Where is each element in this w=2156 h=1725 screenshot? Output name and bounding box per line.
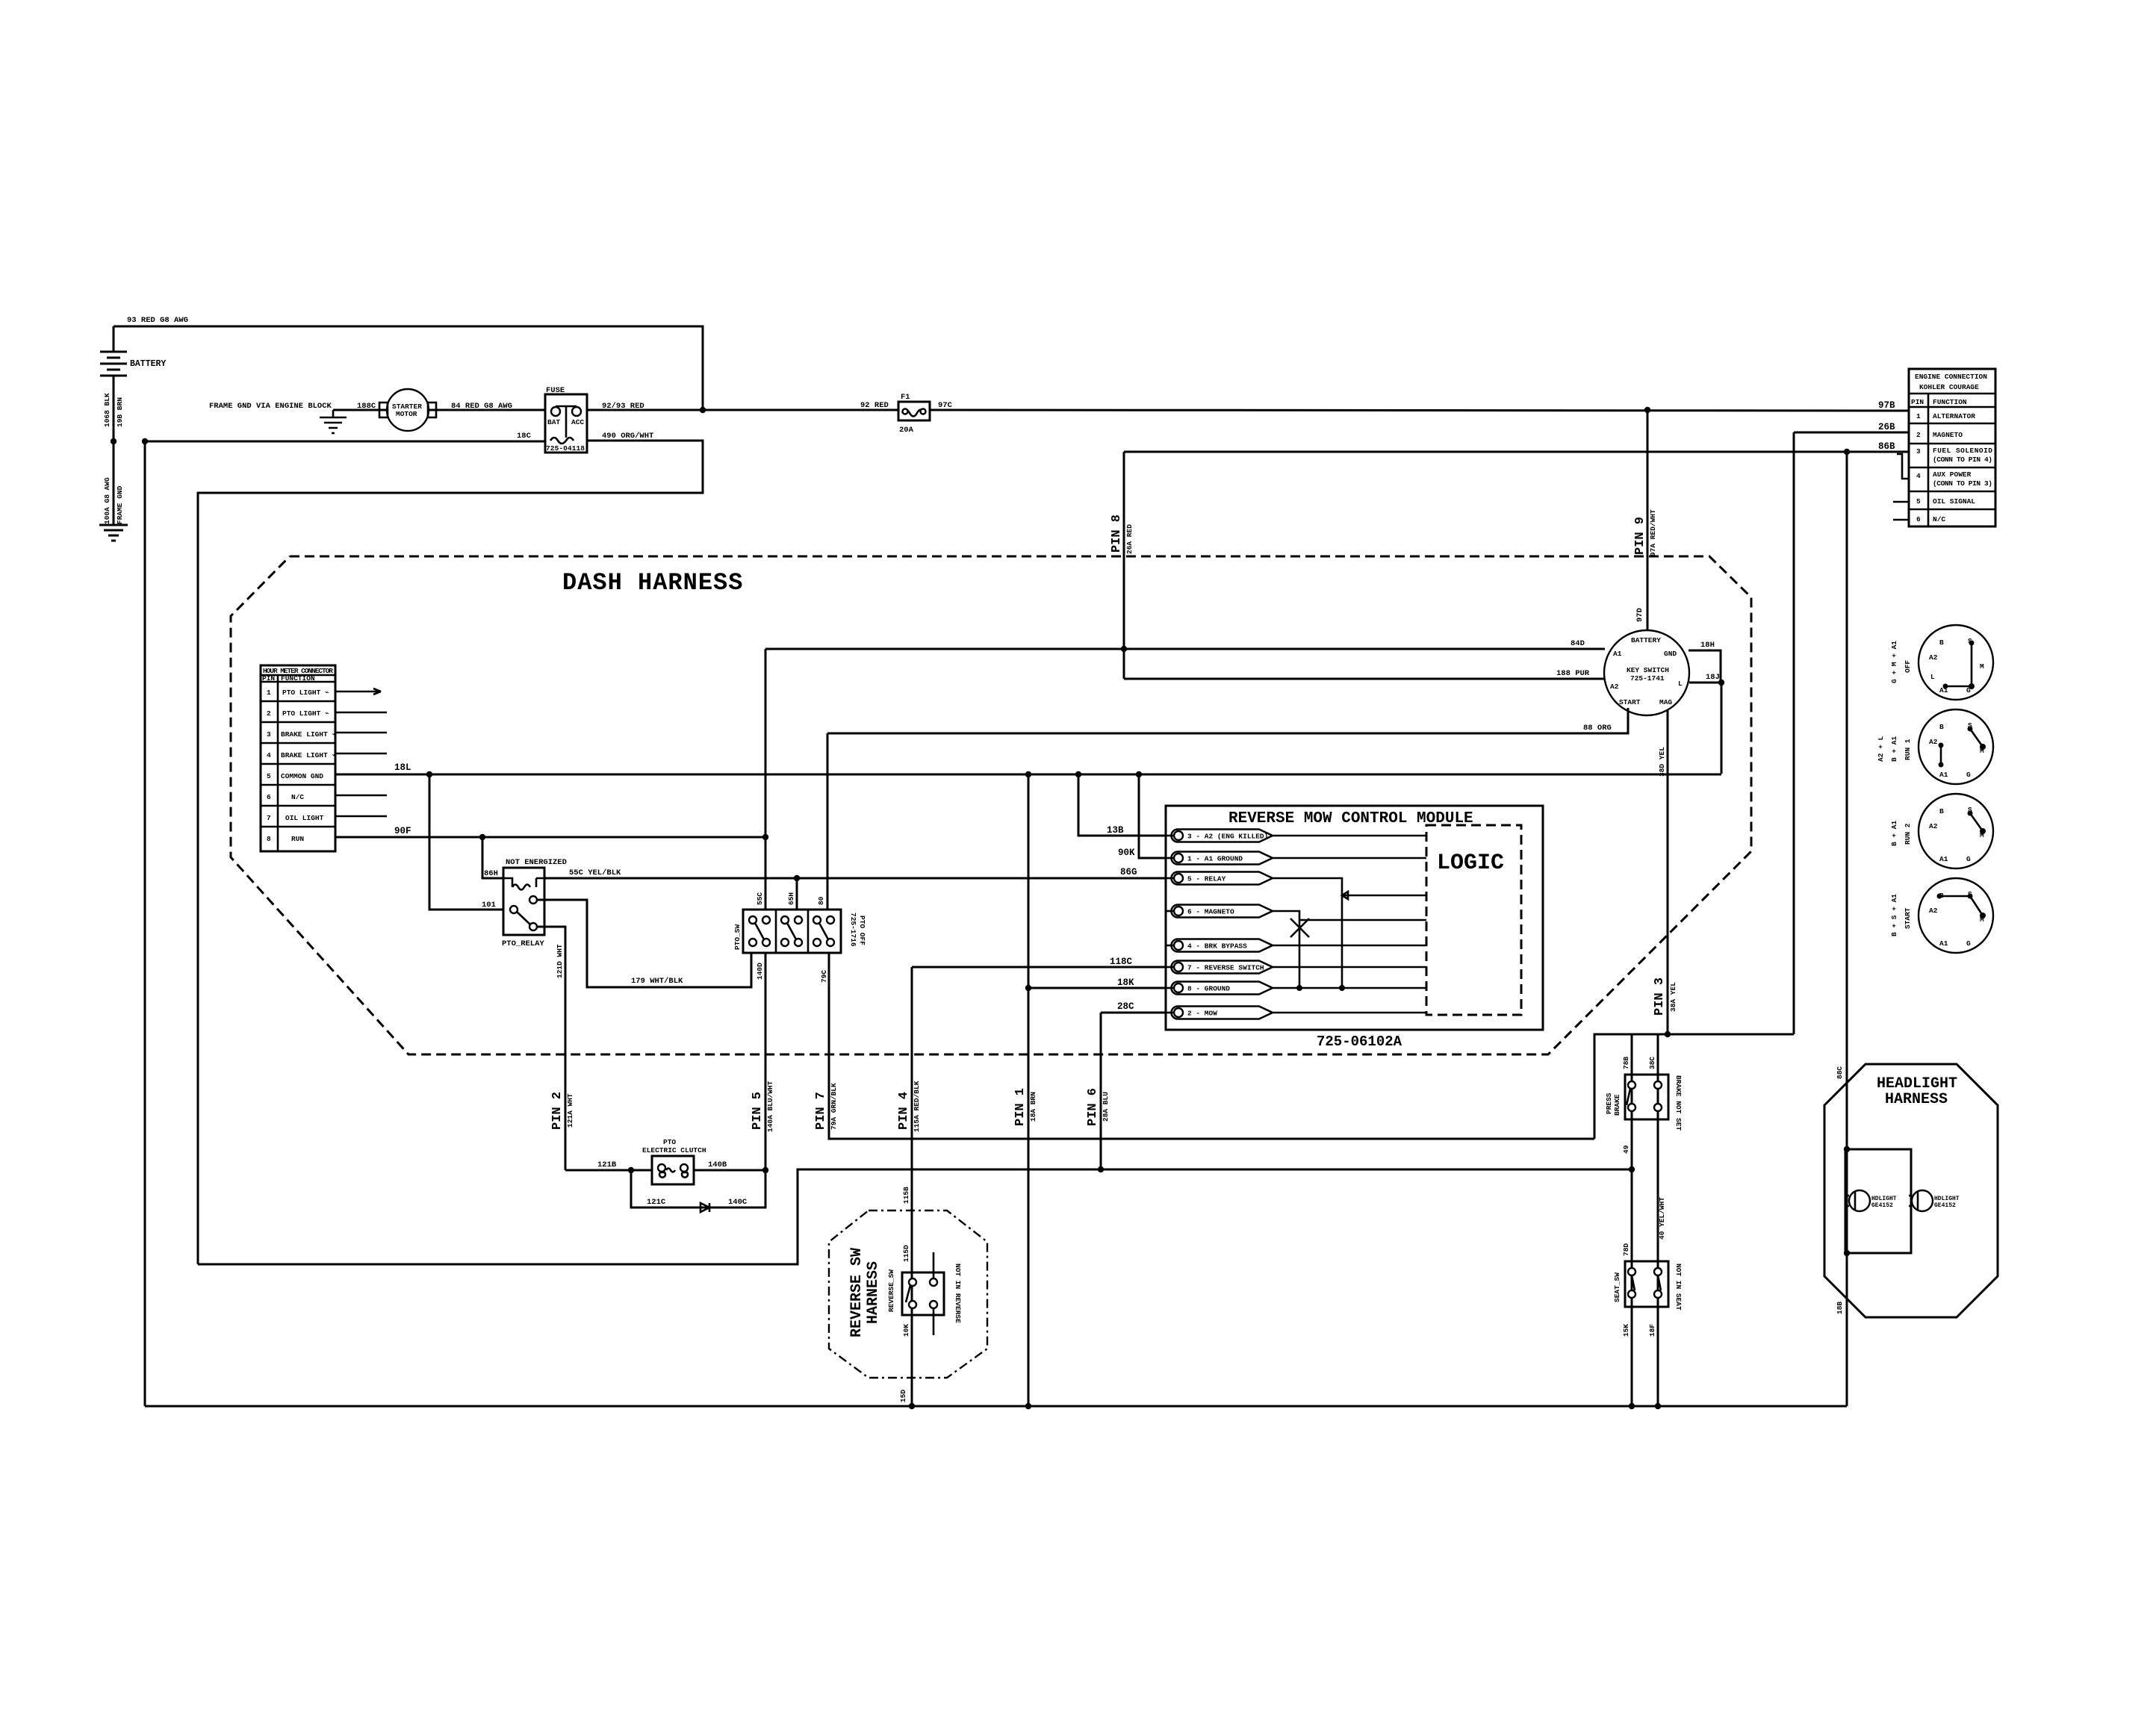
svg-text:79A GRN/BLK: 79A GRN/BLK — [830, 1083, 838, 1130]
svg-text:26A RED: 26A RED — [1125, 524, 1134, 554]
svg-text:PIN 8: PIN 8 — [1110, 515, 1124, 553]
svg-text:ENGINE CONNECTION: ENGINE CONNECTION — [1915, 373, 1987, 381]
svg-text:121A WHT: 121A WHT — [566, 1093, 574, 1128]
svg-text:88 ORG: 88 ORG — [1583, 724, 1612, 733]
svg-text:PIN 1: PIN 1 — [1013, 1088, 1028, 1126]
svg-text:PIN 5: PIN 5 — [751, 1092, 765, 1130]
svg-text:COMMON GND: COMMON GND — [281, 772, 323, 780]
svg-text:65H: 65H — [787, 892, 795, 905]
svg-text:A1: A1 — [1613, 650, 1622, 658]
svg-text:FUSE: FUSE — [546, 386, 565, 395]
svg-text:18H: 18H — [1700, 641, 1715, 650]
svg-text:ELECTRIC CLUTCH: ELECTRIC CLUTCH — [642, 1146, 706, 1154]
svg-text:F1: F1 — [901, 393, 910, 402]
svg-text:BRAKE LIGHT ⌁: BRAKE LIGHT ⌁ — [281, 730, 336, 739]
svg-text:140A BLU/WHT: 140A BLU/WHT — [766, 1081, 774, 1132]
svg-text:55C: 55C — [756, 892, 764, 905]
svg-text:13B: 13B — [1107, 825, 1124, 836]
svg-text:RUN: RUN — [291, 835, 304, 843]
svg-text:97B: 97B — [1878, 400, 1895, 411]
svg-text:38C: 38C — [1648, 1057, 1656, 1069]
svg-text:140C: 140C — [728, 1198, 748, 1207]
svg-text:101: 101 — [482, 901, 496, 910]
svg-text:A2: A2 — [1929, 653, 1938, 662]
svg-text:HARNESS: HARNESS — [1885, 1091, 1948, 1108]
svg-text:B: B — [1939, 807, 1944, 815]
svg-text:OFF: OFF — [1904, 660, 1912, 673]
svg-text:PTO_SW: PTO_SW — [733, 924, 742, 950]
svg-text:86H: 86H — [484, 869, 498, 878]
svg-text:HEADLIGHT: HEADLIGHT — [1877, 1075, 1957, 1092]
svg-text:188C: 188C — [357, 402, 376, 411]
svg-text:A2: A2 — [1610, 683, 1619, 691]
svg-text:HDLIGHT: HDLIGHT — [1934, 1196, 1960, 1202]
svg-text:OIL SIGNAL: OIL SIGNAL — [1933, 497, 1975, 506]
svg-text:725-1716: 725-1716 — [849, 913, 857, 947]
svg-text:3 - A2 (ENG KILLED): 3 - A2 (ENG KILLED) — [1187, 833, 1268, 841]
svg-text:97A RED/WHT: 97A RED/WHT — [1649, 509, 1657, 556]
svg-text:93 RED G8 AWG: 93 RED G8 AWG — [127, 316, 188, 325]
svg-text:REVERSE MOW CONTROL MODULE: REVERSE MOW CONTROL MODULE — [1228, 810, 1473, 827]
svg-text:BRAKE NOT SET: BRAKE NOT SET — [1674, 1075, 1683, 1131]
svg-text:L: L — [1678, 680, 1683, 688]
svg-text:B + A1: B + A1 — [1890, 820, 1898, 846]
svg-text:26B: 26B — [1878, 422, 1895, 432]
svg-text:PTO OFF: PTO OFF — [858, 916, 866, 945]
svg-text:GE4152: GE4152 — [1934, 1202, 1956, 1209]
svg-text:28C: 28C — [1117, 1001, 1134, 1012]
svg-text:(CONN TO PIN 3): (CONN TO PIN 3) — [1933, 479, 1992, 488]
svg-text:100A G8 AWG: 100A G8 AWG — [103, 477, 111, 524]
svg-text:M: M — [1980, 662, 1984, 671]
svg-text:18F: 18F — [1648, 1324, 1656, 1337]
svg-text:G: G — [1966, 771, 1971, 779]
svg-text:121B: 121B — [597, 1160, 617, 1169]
svg-text:OIL LIGHT: OIL LIGHT — [285, 814, 324, 822]
svg-text:HARNESS: HARNESS — [865, 1261, 882, 1324]
svg-text:B + S + A1: B + S + A1 — [1890, 894, 1898, 936]
svg-text:PIN 3: PIN 3 — [1653, 977, 1667, 1016]
svg-text:PTO: PTO — [663, 1138, 676, 1146]
svg-text:78D: 78D — [1622, 1243, 1630, 1256]
svg-text:49: 49 — [1622, 1145, 1630, 1154]
svg-text:L: L — [1930, 673, 1935, 681]
svg-text:18A BRN: 18A BRN — [1029, 1092, 1037, 1122]
svg-text:START: START — [1904, 907, 1912, 929]
svg-text:725-1741: 725-1741 — [1630, 674, 1665, 683]
svg-text:PTO LIGHT ⌁: PTO LIGHT ⌁ — [282, 689, 329, 697]
svg-text:PIN 6: PIN 6 — [1086, 1088, 1100, 1126]
svg-text:38A YEL: 38A YEL — [1669, 982, 1677, 1012]
svg-text:88C: 88C — [1836, 1066, 1844, 1079]
svg-text:A1: A1 — [1939, 855, 1948, 863]
svg-text:115D: 115D — [902, 1245, 910, 1262]
svg-text:5: 5 — [267, 772, 271, 780]
svg-text:725-06102A: 725-06102A — [1317, 1034, 1402, 1050]
svg-text:BRAKE LIGHT ⌁: BRAKE LIGHT ⌁ — [281, 751, 336, 759]
svg-text:38D YEL: 38D YEL — [1658, 747, 1666, 777]
svg-text:140D: 140D — [756, 963, 764, 980]
svg-text:90F: 90F — [394, 826, 411, 836]
svg-text:725-04118: 725-04118 — [546, 444, 585, 453]
svg-text:4: 4 — [267, 751, 271, 759]
svg-text:1: 1 — [1916, 412, 1921, 420]
svg-text:19B BRN: 19B BRN — [116, 397, 124, 427]
svg-text:REVERSE SW: REVERSE SW — [848, 1248, 866, 1337]
svg-text:MAGNETO: MAGNETO — [1933, 431, 1963, 439]
svg-text:92 RED: 92 RED — [860, 401, 889, 410]
svg-text:PIN: PIN — [262, 674, 275, 683]
svg-text:1068 BLK: 1068 BLK — [103, 393, 111, 427]
svg-text:ACC: ACC — [571, 418, 584, 426]
svg-text:NOT IN REVERSE: NOT IN REVERSE — [954, 1264, 962, 1323]
svg-text:PIN 2: PIN 2 — [550, 1092, 565, 1130]
svg-text:BATTERY: BATTERY — [1631, 636, 1661, 644]
svg-text:MAG: MAG — [1659, 698, 1672, 706]
svg-text:1: 1 — [267, 689, 271, 697]
svg-text:SEAT_SW: SEAT_SW — [1613, 1272, 1621, 1302]
svg-text:18K: 18K — [1117, 977, 1134, 988]
svg-text:97D: 97D — [1635, 608, 1644, 622]
svg-text:(CONN TO PIN 4): (CONN TO PIN 4) — [1933, 456, 1992, 464]
svg-text:KEY SWITCH: KEY SWITCH — [1627, 666, 1669, 674]
svg-text:6: 6 — [267, 793, 271, 801]
svg-text:PIN 4: PIN 4 — [897, 1092, 911, 1130]
svg-text:18L: 18L — [394, 762, 411, 773]
svg-text:86G: 86G — [1120, 867, 1137, 877]
svg-text:8: 8 — [267, 835, 271, 843]
svg-text:18J: 18J — [1706, 673, 1720, 682]
svg-text:4 - BRK BYPASS: 4 - BRK BYPASS — [1187, 942, 1247, 951]
svg-text:2: 2 — [267, 709, 271, 718]
svg-text:GND: GND — [1664, 650, 1677, 658]
svg-text:FUNCTION: FUNCTION — [281, 674, 315, 683]
svg-text:N/C: N/C — [1933, 515, 1945, 523]
svg-text:G + M + A1: G + M + A1 — [1890, 641, 1898, 683]
svg-text:START: START — [1619, 698, 1641, 706]
svg-text:84 RED G8 AWG: 84 RED G8 AWG — [451, 402, 512, 411]
svg-text:BRAKE: BRAKE — [1613, 1094, 1621, 1116]
svg-text:55C YEL/BLK: 55C YEL/BLK — [569, 868, 621, 877]
svg-text:FUNCTION: FUNCTION — [1933, 398, 1967, 406]
svg-text:15K: 15K — [1622, 1324, 1630, 1337]
svg-text:2: 2 — [1916, 431, 1921, 439]
svg-text:A1: A1 — [1939, 939, 1948, 948]
svg-text:N/C: N/C — [291, 793, 304, 801]
svg-text:121C: 121C — [647, 1198, 666, 1207]
svg-text:BATTERY: BATTERY — [130, 359, 166, 369]
svg-text:PIN: PIN — [1911, 398, 1924, 406]
svg-text:80: 80 — [817, 896, 825, 905]
svg-text:2 - MOW: 2 - MOW — [1187, 1010, 1217, 1018]
svg-text:A1: A1 — [1939, 771, 1948, 779]
svg-text:AUX POWER: AUX POWER — [1933, 470, 1972, 479]
svg-text:92/93 RED: 92/93 RED — [602, 402, 644, 411]
svg-text:PIN 9: PIN 9 — [1633, 517, 1647, 555]
svg-text:MOTOR: MOTOR — [396, 410, 417, 418]
svg-text:G: G — [1966, 939, 1971, 948]
svg-text:A2: A2 — [1929, 822, 1938, 830]
svg-text:3: 3 — [267, 730, 271, 739]
svg-text:7 - REVERSE SWITCH: 7 - REVERSE SWITCH — [1187, 964, 1264, 972]
svg-text:5: 5 — [1916, 497, 1921, 506]
svg-text:97C: 97C — [938, 401, 953, 410]
svg-text:490 ORG/WHT: 490 ORG/WHT — [602, 432, 653, 441]
svg-text:8 - GROUND: 8 - GROUND — [1187, 985, 1230, 993]
svg-text:40 YEL/WHT: 40 YEL/WHT — [1658, 1197, 1666, 1240]
svg-text:G: G — [1966, 855, 1971, 863]
svg-text:FRAME GND VIA ENGINE BLOCK: FRAME GND VIA ENGINE BLOCK — [209, 402, 332, 411]
svg-text:REVERSE_SW: REVERSE_SW — [887, 1269, 895, 1312]
svg-text:LOGIC: LOGIC — [1437, 851, 1504, 876]
svg-text:20A: 20A — [899, 426, 914, 435]
svg-text:84D: 84D — [1571, 639, 1585, 648]
svg-text:15D: 15D — [899, 1390, 907, 1402]
svg-text:7: 7 — [267, 814, 271, 822]
svg-text:118C: 118C — [1110, 957, 1133, 967]
svg-text:FRAME GND: FRAME GND — [116, 485, 124, 524]
svg-text:179 WHT/BLK: 179 WHT/BLK — [631, 977, 683, 986]
svg-text:28A BLU: 28A BLU — [1102, 1092, 1110, 1122]
svg-text:FUEL SOLENOID: FUEL SOLENOID — [1933, 447, 1992, 455]
svg-text:4: 4 — [1916, 472, 1921, 480]
svg-text:6: 6 — [1916, 515, 1921, 523]
svg-text:188 PUR: 188 PUR — [1556, 669, 1590, 678]
svg-text:A2: A2 — [1929, 738, 1938, 746]
svg-text:NOT IN SEAT: NOT IN SEAT — [1674, 1264, 1683, 1311]
svg-text:B + A1: B + A1 — [1890, 736, 1898, 762]
svg-text:140B: 140B — [708, 1160, 727, 1169]
svg-text:18B: 18B — [1836, 1302, 1844, 1314]
svg-text:3: 3 — [1916, 447, 1921, 456]
svg-text:90K: 90K — [1118, 848, 1135, 858]
svg-text:78B: 78B — [1622, 1057, 1630, 1069]
svg-text:121D WHT: 121D WHT — [556, 944, 564, 978]
svg-text:NOT ENERGIZED: NOT ENERGIZED — [506, 858, 567, 867]
svg-text:BAT: BAT — [547, 418, 560, 426]
svg-text:B: B — [1939, 638, 1944, 647]
svg-text:PRESS: PRESS — [1605, 1092, 1613, 1114]
svg-text:1 - A1 GROUND: 1 - A1 GROUND — [1187, 855, 1243, 863]
svg-text:A2 + L: A2 + L — [1877, 736, 1885, 762]
svg-text:DASH HARNESS: DASH HARNESS — [562, 569, 743, 597]
svg-text:115B: 115B — [902, 1187, 910, 1204]
svg-text:86B: 86B — [1878, 441, 1895, 452]
svg-text:79C: 79C — [820, 970, 828, 983]
svg-text:A2: A2 — [1929, 907, 1938, 915]
svg-text:115A RED/BLK: 115A RED/BLK — [913, 1081, 921, 1132]
svg-text:RUN 1: RUN 1 — [1904, 739, 1912, 760]
svg-text:PIN 7: PIN 7 — [814, 1092, 828, 1130]
svg-text:18C: 18C — [517, 432, 532, 441]
svg-text:10K: 10K — [902, 1324, 910, 1337]
svg-text:PTO LIGHT ⌁: PTO LIGHT ⌁ — [282, 709, 329, 718]
svg-text:GE4152: GE4152 — [1871, 1202, 1893, 1209]
svg-text:RUN 2: RUN 2 — [1904, 823, 1912, 845]
svg-text:5 - RELAY: 5 - RELAY — [1187, 875, 1226, 883]
svg-text:KOHLER COURAGE: KOHLER COURAGE — [1919, 383, 1979, 391]
svg-text:HDLIGHT: HDLIGHT — [1871, 1196, 1897, 1202]
svg-text:B: B — [1939, 723, 1944, 731]
svg-text:ALTERNATOR: ALTERNATOR — [1933, 412, 1975, 420]
svg-text:6 - MAGNETO: 6 - MAGNETO — [1187, 908, 1234, 916]
svg-text:PTO_RELAY: PTO_RELAY — [502, 939, 544, 948]
